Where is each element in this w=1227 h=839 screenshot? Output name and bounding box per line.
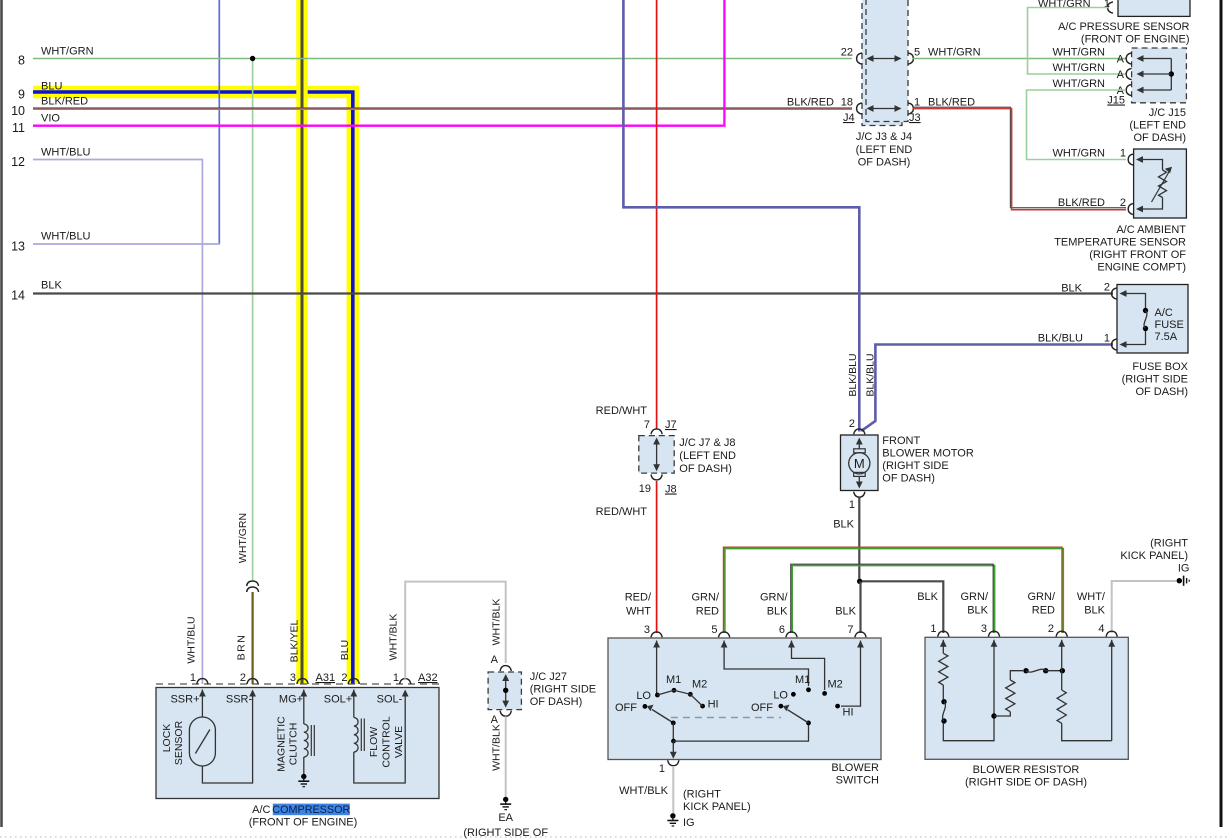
svg-text:BLOWER MOTOR: BLOWER MOTOR [882, 448, 974, 460]
mechanical link dashed [671, 717, 781, 719]
border right edge [1220, 0, 1223, 827]
svg-text:WHT/BLK: WHT/BLK [619, 785, 669, 797]
J15 row A3 arrow wire [1140, 89, 1171, 91]
J15 row A1 arrow wire [1140, 58, 1171, 60]
svg-text:1: 1 [930, 623, 936, 635]
IG feed symbol (right kick panel) [1177, 578, 1182, 583]
svg-text:EA: EA [498, 812, 513, 824]
wire WHT/GRN row 8 [33, 58, 852, 60]
svg-text:FRONT: FRONT [882, 435, 920, 447]
svg-text:1: 1 [849, 499, 855, 511]
svg-text:RED: RED [696, 606, 719, 618]
svg-text:BLOWER: BLOWER [831, 762, 879, 774]
wire GRN/BLK switch pin6 to resistor pin3 [792, 566, 994, 633]
svg-text:OF DASH): OF DASH) [882, 473, 935, 485]
pin 18 arc J4 [857, 103, 862, 114]
svg-text:RED/WHT: RED/WHT [596, 405, 648, 417]
svg-text:OFF: OFF [751, 702, 773, 714]
svg-text:9: 9 [18, 88, 25, 102]
svg-text:VALVE: VALVE [393, 726, 405, 758]
thermistor zigzag [1159, 170, 1167, 198]
svg-text:WHT/GRN: WHT/GRN [1052, 148, 1105, 160]
wire GRN/RED switch pin5 to resistor pin2 [725, 549, 1062, 633]
SSR- internal arrow [252, 692, 254, 696]
pin 1 arc pressure sensor [1108, 2, 1113, 13]
svg-text:2: 2 [1048, 623, 1054, 635]
wire WHT/GRN pressure sensor to J15 row A2 [1028, 8, 1127, 75]
pin 2 arrow [1122, 293, 1128, 295]
right wiper arrow [788, 710, 809, 723]
thermal fuse R2 [1023, 668, 1028, 673]
pin 1 arc switch bottom [668, 760, 679, 765]
svg-text:WHT: WHT [626, 606, 651, 618]
svg-text:CLUTCH: CLUTCH [288, 723, 300, 766]
svg-text:A31: A31 [316, 672, 336, 684]
svg-text:RED: RED [1032, 605, 1055, 617]
svg-text:10: 10 [11, 104, 25, 118]
pin 2 arc SSR- [247, 679, 258, 684]
svg-text:LO: LO [773, 689, 788, 701]
wire WHT/BLU vertical row12 to compressor pin 1 [201, 160, 203, 685]
svg-text:LO: LO [636, 690, 651, 702]
resistor pin 2 arc [1056, 631, 1067, 636]
wire BLK/RED J3 to ambient temp sensor pin 2 [913, 107, 1126, 207]
svg-text:A/C AMBIENT: A/C AMBIENT [1116, 224, 1186, 236]
pin A1 arc [1126, 53, 1131, 64]
svg-text:1: 1 [190, 672, 196, 684]
resistor pin2 internal wire + element R3 [1061, 640, 1063, 642]
svg-text:J/C J27: J/C J27 [530, 671, 567, 683]
svg-text:7: 7 [644, 419, 650, 431]
switch pin 7 arc [855, 632, 866, 637]
junction dot J15 [1169, 71, 1174, 76]
svg-text:BLK: BLK [41, 280, 62, 292]
J15 internal bus wire [1170, 59, 1172, 91]
pin 1 arc fuse box [1112, 339, 1117, 350]
wire BLK row 14 [33, 292, 1113, 294]
wire WHT/GRN row8 inside J/C (double arrow) [869, 58, 899, 60]
switch pin 3 arc [651, 632, 662, 637]
svg-text:WHT/BLK: WHT/BLK [491, 724, 503, 771]
svg-text:6: 6 [779, 624, 785, 636]
svg-text:COMPRESSOR: COMPRESSOR [272, 804, 350, 816]
svg-text:BRN: BRN [236, 634, 248, 661]
svg-text:A: A [1117, 54, 1125, 66]
svg-text:SOL-: SOL- [377, 694, 403, 706]
pin 1 arc J3 [908, 103, 913, 114]
svg-text:CONTROL: CONTROL [381, 716, 393, 767]
svg-text:A: A [491, 654, 499, 666]
left wiper arrow [652, 710, 673, 723]
valve loop to SOL- [354, 691, 405, 783]
svg-text:2: 2 [1104, 282, 1110, 294]
svg-text:HI: HI [843, 707, 854, 719]
wire BLK junction up to switch pin7 [859, 581, 861, 633]
svg-text:OF DASH): OF DASH) [1135, 386, 1188, 398]
wire BLK/RED row10 inside J/C (double arrow) [869, 108, 899, 110]
thermistor arrow [1152, 171, 1170, 202]
svg-text:WHT/GRN: WHT/GRN [928, 47, 981, 59]
right contacts [779, 704, 784, 709]
svg-text:KICK PANEL): KICK PANEL) [1120, 550, 1188, 562]
svg-text:WHT/BLU: WHT/BLU [186, 616, 198, 663]
svg-text:BLK/BLU: BLK/BLU [847, 353, 859, 396]
switch pin3 internal wire to LO [656, 641, 658, 643]
wire BLK/BLU from top via bend to motor pin 2 [623, 0, 859, 432]
SOL- internal arrow [404, 692, 406, 696]
SSR+ internal arrow/wire [201, 690, 203, 692]
component front blower motor box [841, 435, 879, 491]
svg-text:M1: M1 [666, 674, 681, 686]
junction block J/C J27 [488, 672, 521, 710]
J7-J8 internal double arrow [656, 441, 658, 468]
motor brush bottom [854, 472, 866, 476]
svg-text:8: 8 [18, 54, 25, 68]
svg-text:2: 2 [341, 672, 347, 684]
svg-text:WHT/BLK: WHT/BLK [388, 614, 400, 661]
svg-text:2: 2 [849, 418, 855, 430]
svg-text:1: 1 [659, 763, 665, 775]
svg-text:1: 1 [1120, 148, 1126, 160]
svg-text:(RIGHT SIDE OF DASH): (RIGHT SIDE OF DASH) [965, 777, 1087, 789]
pin 1 arrow [1138, 159, 1146, 161]
clutch ground [303, 757, 305, 774]
svg-text:(RIGHT: (RIGHT [1150, 538, 1188, 550]
border left edge [0, 0, 3, 827]
svg-text:BLK/RED: BLK/RED [787, 97, 834, 109]
svg-text:4: 4 [1098, 623, 1104, 635]
wire BLU row 9 (blue core) [33, 92, 353, 684]
pin A arc top J27 [500, 666, 511, 671]
svg-text:SSR-: SSR- [226, 694, 253, 706]
svg-text:RED/WHT: RED/WHT [596, 506, 648, 518]
svg-text:A/C: A/C [252, 804, 270, 816]
svg-text:RED/: RED/ [625, 592, 652, 604]
switch pin5 internal wire to M1 [723, 641, 725, 643]
wire WHT/BLK J27 to EA ground [505, 716, 507, 797]
svg-text:A/C: A/C [1155, 307, 1173, 319]
component A/C compressor box [156, 688, 439, 799]
junction dot pin2 [1060, 668, 1065, 673]
svg-text:OFF: OFF [615, 702, 637, 714]
svg-text:BLK/RED: BLK/RED [41, 96, 88, 108]
thermistor internal wiring [1146, 160, 1163, 171]
svg-text:3: 3 [981, 623, 987, 635]
pin 19 arc J8 [651, 475, 662, 480]
svg-text:2: 2 [240, 672, 246, 684]
wire WHT/BLU vertical from top to row 13 [218, 0, 220, 244]
pin 2 arc motor [854, 429, 865, 434]
switch pin1 internal wire down [672, 741, 674, 756]
svg-text:13: 13 [11, 240, 25, 254]
switch pin7 internal wire to HI [860, 641, 862, 643]
svg-text:J8: J8 [665, 484, 677, 496]
pin 1 arrow [1122, 344, 1128, 346]
svg-text:BLU: BLU [339, 640, 351, 660]
svg-text:OF DASH): OF DASH) [858, 157, 911, 169]
wire RED/WHT vertical from top to J7 [656, 0, 658, 429]
svg-text:7: 7 [847, 624, 853, 636]
pin 2 arrow [1138, 208, 1146, 210]
svg-text:ENGINE COMPT): ENGINE COMPT) [1097, 262, 1186, 274]
svg-text:(LEFT END: (LEFT END [856, 144, 913, 156]
junction dot row 8 [250, 56, 255, 61]
resistor pin3 internal wire [993, 640, 995, 642]
svg-text:(RIGHT SIDE OF: (RIGHT SIDE OF [463, 827, 548, 839]
svg-text:KICK PANEL): KICK PANEL) [683, 801, 751, 813]
wire VIO row 11 [33, 125, 723, 127]
pin A2 arc [1126, 68, 1131, 79]
svg-text:MG+: MG+ [279, 694, 303, 706]
svg-text:1: 1 [1104, 0, 1110, 10]
wire WHT/GRN J15 A3 to ambient sensor pin 1 [1027, 90, 1127, 160]
wire BLK/YEL vertical (yellow band) [296, 0, 307, 684]
svg-text:BLOWER RESISTOR: BLOWER RESISTOR [973, 764, 1080, 776]
svg-text:M: M [854, 456, 865, 471]
svg-text:FLOW: FLOW [368, 727, 380, 757]
resistor pin 3 arc [988, 631, 999, 636]
svg-text:J7: J7 [665, 419, 677, 431]
svg-text:J15: J15 [1107, 95, 1125, 107]
wire BRN vertical to pin 2 [252, 592, 254, 684]
motor brush top [854, 449, 866, 453]
wire WHT/BLU row 13 [33, 243, 220, 245]
svg-text:BLK: BLK [767, 606, 788, 618]
svg-text:OF DASH): OF DASH) [530, 696, 583, 708]
junction dot BLK [857, 579, 862, 584]
svg-text:WHT/BLU: WHT/BLU [41, 147, 91, 159]
svg-text:(RIGHT FRONT OF: (RIGHT FRONT OF [1089, 249, 1186, 261]
switch pin 6 arc [786, 632, 797, 637]
wire WHT/BLK switch pin1 to IG ground [672, 766, 674, 813]
J15 row A2 arrow wire [1140, 73, 1171, 75]
resistor pin1 internal wire + element R1 [942, 640, 944, 642]
pin 1 arc motor [854, 492, 865, 497]
svg-text:WHT/GRN: WHT/GRN [1052, 62, 1105, 74]
svg-text:1: 1 [393, 672, 399, 684]
svg-text:J/C J3 & J4: J/C J3 & J4 [856, 131, 912, 143]
wire BLK/YEL core [301, 0, 304, 684]
svg-text:A/C PRESSURE SENSOR: A/C PRESSURE SENSOR [1058, 21, 1189, 33]
pin A3 arc [1126, 84, 1131, 95]
svg-text:BLK: BLK [833, 519, 854, 531]
wiper pivots and bottom link [671, 721, 676, 726]
switch pin6 internal wire to M2 [791, 641, 793, 643]
svg-text:BLK/YEL: BLK/YEL [289, 620, 301, 663]
svg-text:(RIGHT: (RIGHT [683, 789, 721, 801]
svg-text:OF DASH): OF DASH) [1133, 132, 1186, 144]
svg-text:(FRONT OF ENGINE): (FRONT OF ENGINE) [1081, 34, 1190, 46]
magnetic clutch coil [304, 724, 308, 757]
svg-text:BLU: BLU [41, 81, 62, 93]
junction block J/C J3 [866, 0, 908, 122]
svg-text:(LEFT END: (LEFT END [1129, 120, 1186, 132]
svg-text:BLK: BLK [967, 605, 988, 617]
svg-text:M1: M1 [795, 674, 810, 686]
component A/C pressure sensor box [1118, 0, 1190, 16]
resistor pin 4 arc [1106, 631, 1117, 636]
svg-text:WHT/BLK: WHT/BLK [491, 599, 503, 646]
flow control valve coil [354, 718, 358, 753]
wire BLK/BLU from fuse box to motor pin 2 [861, 345, 1113, 432]
svg-text:J4: J4 [843, 112, 855, 124]
svg-text:SSR+: SSR+ [170, 694, 199, 706]
svg-text:GRN/: GRN/ [760, 592, 788, 604]
svg-text:A: A [1117, 69, 1125, 81]
component blower resistor box [925, 637, 1128, 759]
pin 5 arc J3 [908, 53, 913, 64]
wire BLK junction to resistor pin1 [862, 581, 943, 633]
svg-text:J/C J7 & J8: J/C J7 & J8 [679, 437, 735, 449]
junction block J/C J4 [862, 0, 902, 126]
svg-text:SENSOR: SENSOR [173, 720, 185, 765]
svg-text:(RIGHT SIDE: (RIGHT SIDE [530, 684, 596, 696]
svg-text:3: 3 [644, 624, 650, 636]
svg-text:GRN/: GRN/ [692, 592, 720, 604]
pin 3 arc MG+ [297, 679, 308, 684]
EA ground symbol [503, 797, 508, 802]
pin 22 arc J4 [857, 53, 862, 64]
wire BLU row 9 highlight halo [33, 92, 353, 684]
fuse element A/C FUSE 7.5A [1143, 308, 1148, 313]
pin 2 arc SOL+ [348, 679, 359, 684]
svg-text:19: 19 [639, 483, 651, 495]
svg-text:MAGNETIC: MAGNETIC [276, 716, 288, 772]
wire WHT/GRN J3 pin5 to J15 pin A [913, 58, 1126, 60]
svg-text:7.5A: 7.5A [1155, 331, 1178, 343]
wire WHT/GRN vertical to compressor [252, 59, 254, 581]
svg-text:WHT/GRN: WHT/GRN [237, 513, 249, 563]
pin 1 arc SOL- [400, 679, 411, 684]
svg-text:BLK/RED: BLK/RED [1058, 197, 1105, 209]
lock sensor symbol [189, 717, 215, 766]
resistor pin4 internal wire [1111, 640, 1113, 642]
motor internal stem top arrow [858, 440, 860, 450]
svg-text:WHT/GRN: WHT/GRN [1052, 78, 1105, 90]
svg-text:IG: IG [1178, 563, 1190, 575]
wire WHT/BLK resistor pin4 to IG point [1112, 581, 1177, 633]
svg-text:18: 18 [841, 97, 853, 109]
wire WHT/BLK SOL- to J27 [405, 582, 506, 679]
svg-text:11: 11 [12, 121, 25, 135]
svg-text:LOCK: LOCK [161, 724, 173, 753]
svg-text:BLK/BLU: BLK/BLU [1038, 333, 1083, 345]
svg-text:1: 1 [1104, 333, 1110, 345]
element R2 [994, 712, 1010, 716]
junction dot J27 [503, 688, 508, 693]
pin A arc bottom J27 [500, 711, 511, 716]
svg-text:5: 5 [914, 47, 920, 59]
wire RED/WHT J8 to blower switch pin 3 [656, 481, 658, 633]
pin 1 arc SSR+ [197, 679, 208, 684]
switch pin 5 arc [719, 632, 730, 637]
svg-text:WHT/GRN: WHT/GRN [1038, 0, 1091, 10]
component ambient temp sensor box [1134, 149, 1187, 218]
pin 2 arc fuse box [1112, 288, 1117, 299]
svg-text:BLK/BLU: BLK/BLU [865, 353, 877, 396]
component fuse box [1117, 285, 1188, 354]
svg-text:BLK: BLK [917, 591, 938, 603]
J27 internal double arrow [505, 677, 507, 705]
component blower switch box [608, 638, 881, 760]
junction dot pin3 branch [991, 713, 996, 718]
svg-text:22: 22 [841, 47, 853, 59]
pin 7 arc J7 [651, 429, 662, 434]
svg-text:WHT/GRN: WHT/GRN [41, 46, 94, 58]
svg-text:OF DASH): OF DASH) [679, 463, 732, 475]
fuse internal wiring [1124, 294, 1146, 309]
svg-text:M2: M2 [828, 679, 843, 691]
left contacts LO M1 M2 HI OFF [643, 704, 648, 709]
svg-text:FUSE: FUSE [1155, 319, 1184, 331]
caption A/C COMPRESSOR with highlight [273, 804, 350, 816]
svg-text:A32: A32 [418, 672, 438, 684]
MG+ internal arrow/wire [303, 690, 305, 692]
splice connector arcs WHT/GRN to BRN [247, 581, 259, 586]
resistor pin 1 arc [938, 631, 949, 636]
svg-text:2: 2 [1120, 197, 1126, 209]
wire BLK motor pin1 down to junction [858, 498, 860, 582]
wire WHT/BLU row 12 [33, 159, 203, 161]
junction block J/C J7 & J8 [639, 436, 674, 474]
svg-text:(RIGHT SIDE: (RIGHT SIDE [882, 460, 948, 472]
svg-text:J3: J3 [909, 112, 921, 124]
connector dashed line on top [156, 683, 439, 685]
svg-text:WHT/: WHT/ [1077, 591, 1106, 603]
svg-text:BLK: BLK [1084, 605, 1105, 617]
left contact arc LO-M1-M2 and M2-HI [657, 690, 702, 706]
SOL+ internal arrow/wire [353, 690, 355, 692]
junction block J/C J15 [1132, 48, 1187, 103]
svg-text:VIO: VIO [41, 113, 60, 125]
pin 2 arc ambient sensor [1128, 203, 1133, 214]
svg-text:(RIGHT SIDE: (RIGHT SIDE [1122, 374, 1188, 386]
svg-text:WHT/GRN: WHT/GRN [1052, 47, 1105, 59]
thermal fuse R1 [941, 699, 946, 704]
svg-text:3: 3 [290, 672, 296, 684]
motor circle M [849, 453, 870, 474]
svg-text:J/C J15: J/C J15 [1149, 107, 1186, 119]
svg-text:BLK: BLK [1061, 283, 1082, 295]
motor internal stem bottom arrow [858, 477, 860, 487]
svg-text:WHT/BLU: WHT/BLU [41, 231, 91, 243]
svg-text:IG: IG [683, 817, 695, 829]
svg-text:FUSE BOX: FUSE BOX [1132, 361, 1188, 373]
pin 1 arc ambient sensor [1128, 154, 1133, 165]
svg-text:BLK: BLK [835, 606, 856, 618]
IG ground symbol below switch [670, 813, 675, 818]
wire BLK/RED row 10 [33, 107, 852, 109]
svg-text:(LEFT END: (LEFT END [679, 450, 736, 462]
svg-text:SWITCH: SWITCH [836, 775, 879, 787]
svg-text:HI: HI [708, 699, 719, 711]
svg-text:GRN/: GRN/ [1028, 591, 1056, 603]
border bottom dashed [0, 836, 1227, 838]
svg-text:M2: M2 [692, 679, 707, 691]
svg-text:TEMPERATURE SENSOR: TEMPERATURE SENSOR [1054, 237, 1186, 249]
svg-text:12: 12 [11, 155, 25, 169]
svg-text:GRN/: GRN/ [961, 591, 989, 603]
lock sensor loop to SSR- [202, 691, 252, 783]
wire VIO vertical to top [723, 0, 725, 127]
svg-text:SOL+: SOL+ [324, 694, 352, 706]
svg-text:14: 14 [11, 289, 25, 303]
svg-text:(FRONT OF ENGINE): (FRONT OF ENGINE) [249, 817, 358, 829]
svg-text:5: 5 [711, 624, 717, 636]
